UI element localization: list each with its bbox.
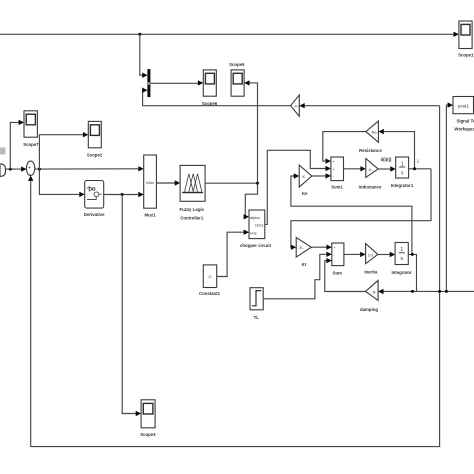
label Scope1 xyxy=(458,53,474,58)
label i xyxy=(417,159,418,164)
gain Ke xyxy=(299,165,312,187)
scope Scope7 xyxy=(24,111,37,137)
wire Kt output to Sum input1 xyxy=(311,245,332,250)
svg-text:Scope5: Scope5 xyxy=(229,62,245,67)
label Resistance xyxy=(359,148,382,153)
label cropped gray at left edge xyxy=(0,148,6,155)
block Sum1 xyxy=(331,157,344,181)
svg-text:Vdc: Vdc xyxy=(250,231,257,236)
svg-text:-C-: -C- xyxy=(207,274,213,279)
wire derivative output to Mux1 bottom input xyxy=(104,192,144,197)
wire Sum output to Inertia xyxy=(344,252,366,257)
gain Inductance xyxy=(366,158,378,177)
label Scope3 xyxy=(140,432,156,437)
wire gain output left, up to mux bottom input xyxy=(142,88,290,106)
svg-text:B: B xyxy=(373,289,376,294)
label Sum xyxy=(333,270,342,275)
block Integrator xyxy=(395,243,408,265)
gain Inertia xyxy=(366,244,378,264)
sum junction ellipse xyxy=(26,161,34,177)
block TL step xyxy=(250,288,263,310)
svg-text:Constant1: Constant1 xyxy=(199,291,221,296)
svg-text:1: 1 xyxy=(400,247,403,253)
block Fuzzy Logic Controller xyxy=(180,165,205,201)
block Sum xyxy=(332,243,344,266)
wire error branch down to Derivative xyxy=(39,169,84,197)
svg-text:yout1: yout1 xyxy=(458,104,470,109)
svg-text:Mux1: Mux1 xyxy=(145,213,157,218)
svg-text:Derivative: Derivative xyxy=(84,212,105,217)
svg-text:Signal To: Signal To xyxy=(456,119,474,124)
svg-text:Inductance: Inductance xyxy=(359,185,382,190)
arrow into Scope1 xyxy=(454,32,459,37)
label Mux1 xyxy=(145,213,157,218)
wire chopper Out1 up to Sum1 input2 xyxy=(265,150,331,224)
wire Mux1 output to Fuzzy xyxy=(156,180,180,185)
wire long feedback down and around to sum xyxy=(28,106,440,447)
wire speed display line from feedback to gain and mux bottom xyxy=(299,103,439,108)
label damping xyxy=(360,307,378,312)
svg-text:alpha: alpha xyxy=(250,215,261,220)
node junction feedback B xyxy=(445,290,448,293)
scope Scope2 xyxy=(88,121,101,147)
wire error branch up to Scope2 xyxy=(39,132,88,169)
svg-text:i: i xyxy=(417,159,418,164)
svg-text:TL: TL xyxy=(254,315,260,320)
label Inertia xyxy=(364,269,378,274)
wire speed feedback to Ke xyxy=(291,173,412,254)
svg-text:Ra: Ra xyxy=(371,130,377,135)
wire Ra feedback into Sum1 input1 xyxy=(323,132,366,164)
node junction reference xyxy=(9,168,12,171)
block yout1 To Workspace xyxy=(453,97,474,114)
node junction damping line xyxy=(411,290,414,293)
label Fuzzy Logic Controller1 xyxy=(180,207,205,221)
svg-text:-K-: -K- xyxy=(298,245,304,250)
wire alpha jog into chopper xyxy=(244,183,258,219)
svg-text:-K-: -K- xyxy=(294,104,300,109)
node junction speed xyxy=(411,253,414,256)
wire Inertia to Integrator xyxy=(378,252,395,257)
wire reference top horizontal to Scope1 xyxy=(0,33,456,35)
scope Scope3 xyxy=(141,400,155,428)
svg-text:1: 1 xyxy=(401,161,404,167)
label Constant1 xyxy=(199,291,221,296)
svg-text:Workspace1: Workspace1 xyxy=(454,127,474,132)
gain Kt xyxy=(296,238,311,258)
svg-text:Sum: Sum xyxy=(333,270,342,275)
label Scope6 xyxy=(202,101,218,106)
wire Integrator1 output xyxy=(409,168,431,170)
svg-text:damping: damping xyxy=(360,307,378,312)
svg-text:Inertia: Inertia xyxy=(364,269,378,274)
svg-text:chopper circuit: chopper circuit xyxy=(240,243,272,248)
svg-text:Kt: Kt xyxy=(302,262,307,267)
label Integrator1 xyxy=(391,183,414,188)
wire Ke output to Sum1 input3 xyxy=(312,173,331,178)
label d(i(t)) xyxy=(381,157,393,162)
label Scope5 above xyxy=(229,62,245,67)
svg-text:Scope7: Scope7 xyxy=(23,142,39,147)
svg-text:Integrator: Integrator xyxy=(391,270,411,275)
label Integrator xyxy=(391,270,411,275)
wire junction down to mux top input xyxy=(140,34,148,78)
node junction derivative branch xyxy=(121,193,124,196)
gain -K- rpm conversion pointing left xyxy=(291,95,300,116)
label Inductance xyxy=(359,185,382,190)
label Kt xyxy=(302,262,307,267)
svg-text:Controller1: Controller1 xyxy=(180,216,204,221)
gain damping pointing left xyxy=(366,280,379,300)
node junction top wire xyxy=(138,33,141,36)
label Scope7 xyxy=(23,142,39,147)
svg-text:Ke: Ke xyxy=(302,191,308,196)
scope Scope5 xyxy=(231,70,244,96)
node junction feedback A xyxy=(438,290,441,293)
block Derivative xyxy=(85,181,104,209)
wire mux output to Scope6 xyxy=(150,80,203,85)
svg-text:Fuzzy Logic: Fuzzy Logic xyxy=(180,207,205,212)
wire Scope5 input from fuzzy output vertical xyxy=(244,80,257,183)
wire branch down to Scope3 xyxy=(122,195,141,417)
block Integrator1 xyxy=(396,157,409,178)
svg-text:1/J: 1/J xyxy=(368,252,373,257)
wire fuzzy output to junction xyxy=(205,182,257,184)
wire current feedback to Kt xyxy=(291,169,431,250)
node junction current i xyxy=(413,167,416,170)
label Scope2 xyxy=(87,153,103,158)
scope Scope1 xyxy=(459,21,472,49)
svg-text:-K-: -K- xyxy=(368,167,374,172)
label Ke xyxy=(302,191,308,196)
svg-text:-K-: -K- xyxy=(301,174,307,179)
wire branch to workspace xyxy=(446,102,453,291)
wire reference from left edge into sum xyxy=(0,166,27,171)
wire Inductance to Integrator1 xyxy=(378,166,396,171)
wire speed horizontal feedback line xyxy=(378,289,474,294)
block chopper circuit xyxy=(249,210,265,239)
label Signal To Workspace1 xyxy=(454,119,474,132)
wire reference branch up to Scope7 xyxy=(10,120,24,169)
scope Scope6 xyxy=(203,70,216,96)
wire damping output to Sum input3 xyxy=(325,258,366,292)
node junction error xyxy=(38,168,41,171)
wire Integrator output to speed node xyxy=(408,254,416,291)
svg-text:Scope2: Scope2 xyxy=(87,153,103,158)
block Mux1 xyxy=(144,155,157,208)
svg-text:Scope1: Scope1 xyxy=(458,53,474,58)
svg-text:Integrator1: Integrator1 xyxy=(391,183,414,188)
label Sum1 xyxy=(331,185,343,190)
block Constant1 xyxy=(203,265,216,288)
wire Constant1 to Vdc input xyxy=(217,230,249,277)
mux Mux4 black bar xyxy=(147,69,150,97)
svg-text:Resistance: Resistance xyxy=(359,148,382,153)
wire Ra input from integrator1 output xyxy=(378,129,414,169)
wire sum output to Mux1 top input xyxy=(35,166,144,171)
node junction fuzzy output xyxy=(256,182,259,185)
gain Ra pointing left xyxy=(366,121,379,142)
svg-text:Sum1: Sum1 xyxy=(331,185,343,190)
label chopper circuit xyxy=(240,243,272,248)
svg-text:d(i(t)): d(i(t)) xyxy=(381,157,393,162)
svg-text:Mux: Mux xyxy=(146,180,154,185)
label TL xyxy=(254,315,260,320)
label Derivative xyxy=(84,212,105,217)
source block cropped at left edge xyxy=(0,164,6,176)
wire TL output staircase to Sum input2 xyxy=(263,252,332,299)
wire Sum1 output to Inductance xyxy=(344,166,366,171)
svg-text:Scope3: Scope3 xyxy=(140,432,156,437)
svg-text:Out1: Out1 xyxy=(255,223,264,228)
